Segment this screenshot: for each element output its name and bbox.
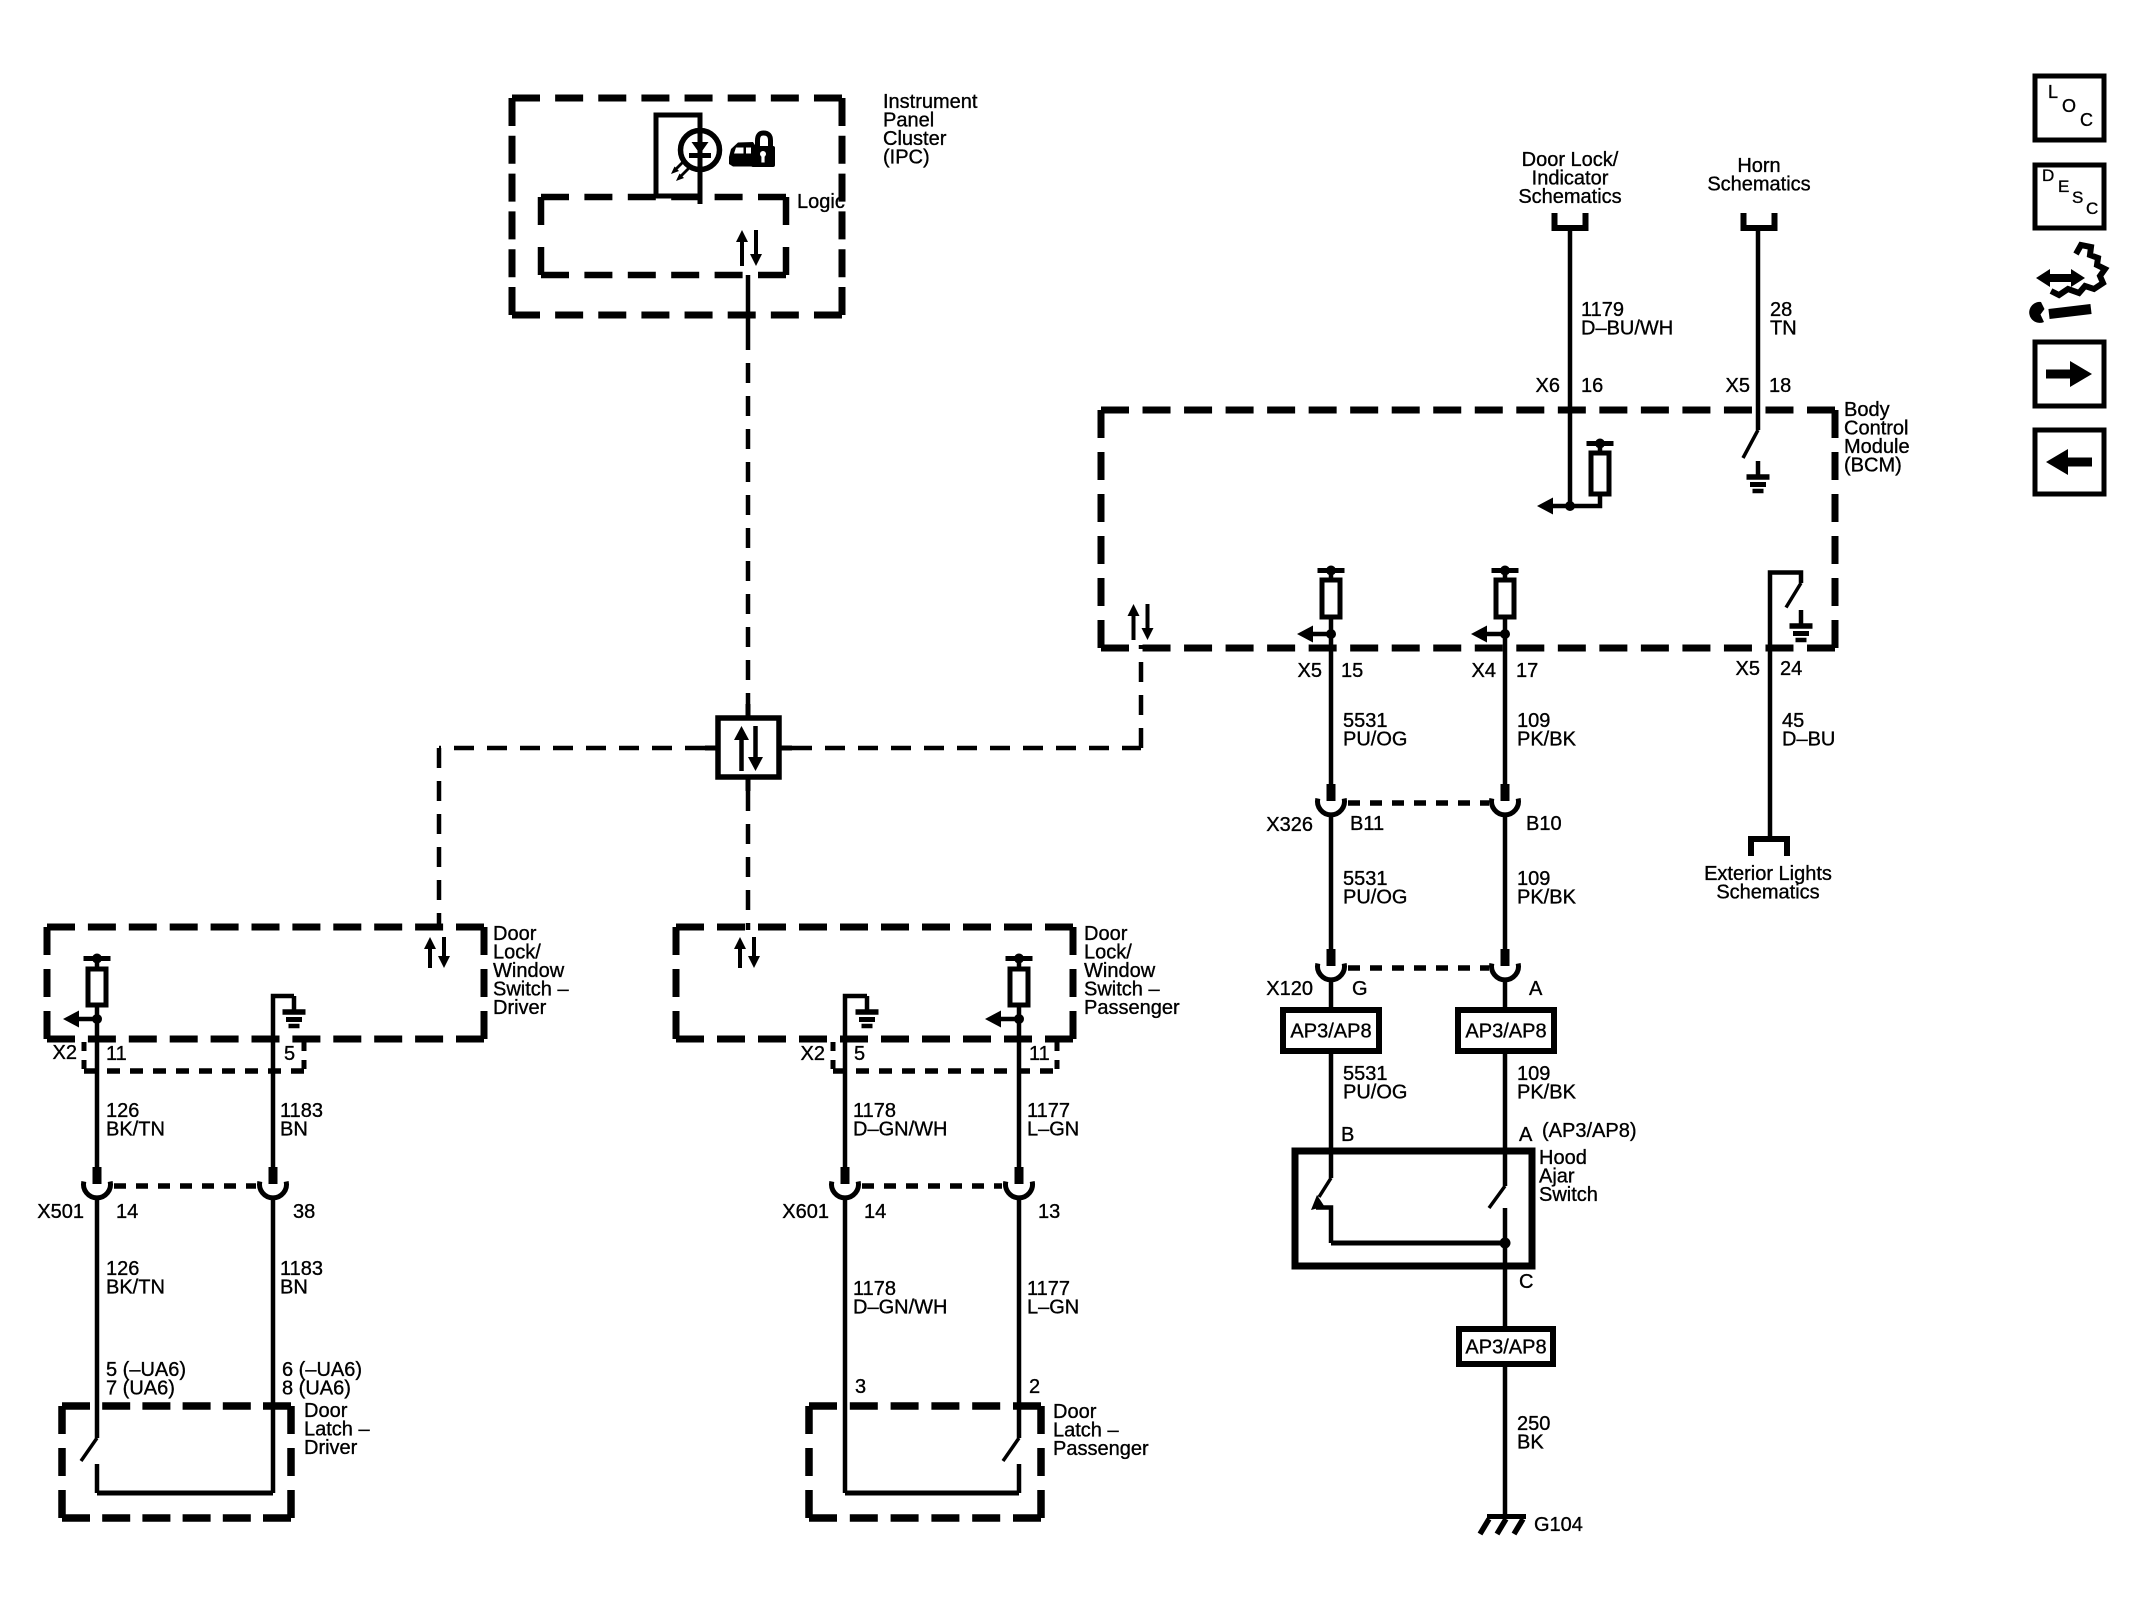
svg-text:2: 2	[1029, 1376, 1040, 1398]
svg-text:G: G	[1352, 978, 1368, 1000]
harness AP3/AP8 box left	[1283, 1010, 1379, 1051]
svg-text:A: A	[1519, 1124, 1533, 1146]
Instrument Panel Cluster (IPC) dashed box	[512, 98, 842, 315]
svg-text:Passenger: Passenger	[1053, 1438, 1149, 1460]
driver latch pin labels	[106, 1359, 362, 1400]
back navigation icon	[2035, 430, 2104, 494]
serial data dashed wire: splice to driver switch	[439, 748, 705, 930]
svg-text:AP3/AP8: AP3/AP8	[1465, 1337, 1546, 1359]
wire 45 label	[1782, 710, 1835, 751]
svg-text:BK: BK	[1517, 1432, 1544, 1454]
svg-text:PK/BK: PK/BK	[1517, 1082, 1577, 1104]
BCM input arrow + junction for 1179	[1537, 498, 1575, 515]
Door Latch - Passenger dashed box	[809, 1406, 1041, 1518]
svg-text:(AP3/AP8): (AP3/AP8)	[1542, 1120, 1636, 1142]
pin X5 15 labels	[1298, 660, 1364, 682]
serial data dashed wire: splice to BCM	[792, 645, 1141, 748]
svg-text:B: B	[1341, 1124, 1354, 1146]
svg-text:X5: X5	[1736, 658, 1760, 680]
svg-text:O: O	[2062, 96, 2076, 116]
repair instructions icon (arrows + wrench)	[2029, 245, 2105, 323]
hood switch blade A	[1489, 1186, 1505, 1208]
off-page connector: Horn Schematics	[1744, 213, 1775, 228]
svg-text:TN: TN	[1770, 318, 1797, 340]
svg-text:Switch: Switch	[1539, 1184, 1598, 1206]
wire 109 PK/BK (X326 to X120)	[1503, 813, 1508, 949]
svg-text:D–GN/WH: D–GN/WH	[853, 1119, 947, 1141]
passenger switch pull-up resistor	[985, 954, 1033, 1028]
pin X6 16 labels	[1536, 375, 1604, 397]
connector X2 dashed marks (driver)	[84, 1042, 304, 1072]
svg-text:X6: X6	[1536, 375, 1560, 397]
in-line connector X120 pin A	[1492, 949, 1519, 980]
wire 1179 label	[1581, 299, 1673, 340]
Door Lock/Window Switch - Passenger dashed box	[676, 927, 1073, 1039]
svg-text:(BCM): (BCM)	[1844, 455, 1902, 477]
svg-text:BN: BN	[280, 1277, 308, 1299]
svg-text:3: 3	[855, 1376, 866, 1398]
BCM serial data up/down arrows	[1128, 604, 1154, 640]
ground G104	[1480, 1517, 1526, 1535]
X326 connector dotted tie line	[1348, 800, 1489, 806]
svg-text:C: C	[2086, 199, 2098, 218]
svg-text:A: A	[1529, 978, 1543, 1000]
svg-text:BK/TN: BK/TN	[106, 1277, 165, 1299]
connector X2 dashed marks (passenger)	[833, 1042, 1057, 1072]
wire 109 label	[1517, 710, 1577, 751]
Logic label	[797, 191, 845, 213]
svg-text:D: D	[2042, 166, 2054, 185]
wire 109 PK/BK (BCM to X326)	[1503, 634, 1508, 784]
BCM pull-up resistor on 1179	[1570, 439, 1614, 507]
passenger switch ground	[845, 996, 879, 1075]
pin X4 17 labels	[1472, 660, 1539, 682]
wire 126 label lower	[106, 1258, 165, 1299]
svg-text:Schematics: Schematics	[1716, 882, 1819, 904]
Door Latch Driver label	[304, 1400, 370, 1459]
hood switch pin letters B / A / (AP3/AP8)	[1341, 1120, 1636, 1146]
Body Control Module (BCM) dashed box	[1101, 410, 1835, 648]
indicator LED branch rectangle	[656, 115, 700, 196]
wire X120-G to harness AP3/AP8	[1329, 978, 1334, 1010]
svg-text:PU/OG: PU/OG	[1343, 887, 1407, 909]
wire 5531 label 3	[1343, 1063, 1407, 1104]
wire 126 label upper	[106, 1100, 165, 1141]
off-page connector: Door Lock/Indicator Schematics	[1555, 213, 1586, 228]
svg-text:17: 17	[1516, 660, 1538, 682]
wire 109 label 2	[1517, 868, 1577, 909]
driver latch switch blade	[81, 1438, 97, 1461]
X501 dotted tie line	[114, 1183, 256, 1189]
security (car with lock) indicator icon	[729, 133, 775, 167]
svg-text:14: 14	[864, 1201, 886, 1223]
svg-text:X326: X326	[1266, 814, 1313, 836]
in-line connector X501 pin 38	[260, 1167, 287, 1198]
svg-text:X4: X4	[1472, 660, 1496, 682]
hood switch blade B with arrow	[1311, 1178, 1331, 1210]
harness AP3/AP8 box right	[1458, 1010, 1554, 1051]
Driver switch label	[493, 923, 569, 1019]
wire from passenger resistor to X2-11	[1017, 1019, 1022, 1075]
svg-text:Logic: Logic	[797, 191, 845, 213]
wire 1177 L-GN lower	[1017, 1196, 1022, 1438]
wire 1183 BN upper	[271, 1039, 276, 1167]
pin C label	[1519, 1271, 1533, 1293]
svg-text:PK/BK: PK/BK	[1517, 729, 1577, 751]
wire 5531 PU/OG (X326 to X120)	[1329, 813, 1334, 949]
hood switch pole B wire	[1329, 1151, 1334, 1178]
in-line connector X120 pin G	[1318, 949, 1345, 980]
wire 28 TN	[1756, 228, 1761, 430]
in-line connector X326 pin B10	[1492, 784, 1519, 815]
wire: LED to logic	[698, 196, 703, 204]
DESC navigation icon	[2035, 165, 2104, 228]
Door Lock/Window Switch - Driver dashed box	[47, 927, 484, 1039]
wire 126 BK/TN lower	[95, 1196, 100, 1438]
driver switch serial data arrows	[424, 937, 450, 968]
Hood Ajar Switch box	[1295, 1151, 1532, 1266]
svg-text:X5: X5	[1298, 660, 1322, 682]
svg-text:5: 5	[284, 1043, 295, 1065]
svg-text:18: 18	[1769, 375, 1791, 397]
wire 5531 PU/OG (to hood switch B)	[1329, 1051, 1334, 1150]
logic serial-data up/down arrows	[736, 230, 762, 266]
harness AP3/AP8 box bottom	[1459, 1329, 1553, 1364]
svg-text:Passenger: Passenger	[1084, 997, 1180, 1019]
svg-text:L–GN: L–GN	[1027, 1119, 1079, 1141]
driver switch pull-up resistor	[63, 954, 111, 1028]
IPC label	[883, 91, 978, 169]
wire 1183 label upper	[280, 1100, 323, 1141]
wire 5531 label 2	[1343, 868, 1407, 909]
passenger switch serial data arrows	[734, 937, 760, 968]
svg-text:X2: X2	[801, 1043, 825, 1065]
driver switch ground	[273, 996, 306, 1039]
forward navigation icon	[2035, 342, 2104, 406]
svg-text:X5: X5	[1726, 375, 1750, 397]
wire 109 label 3	[1517, 1063, 1577, 1104]
svg-text:Driver: Driver	[304, 1437, 358, 1459]
svg-text:(IPC): (IPC)	[883, 147, 930, 169]
wire 5531 label	[1343, 710, 1407, 751]
wire 5531 PU/OG (BCM to X326)	[1329, 634, 1334, 784]
svg-text:7 (UA6): 7 (UA6)	[106, 1378, 175, 1400]
Door Lock/Indicator Schematics label	[1518, 149, 1621, 208]
pin X5 18 labels	[1726, 375, 1792, 397]
wire from driver resistor to X2-11	[95, 1019, 100, 1075]
BCM pull-up resistor on 109	[1471, 566, 1519, 643]
LED D1 diode symbol	[689, 142, 711, 156]
wire 45 D-BU	[1768, 648, 1773, 839]
in-line connector X501 pin 14	[84, 1167, 111, 1198]
svg-text:X601: X601	[782, 1201, 829, 1223]
hood switch A fixed contact	[1503, 1208, 1508, 1243]
serial data communication node (box with up/down arrows)	[705, 704, 792, 791]
in-line connector X601 pin 13	[1006, 1167, 1033, 1198]
serial data dashed wire: splice to passenger switch	[746, 791, 751, 930]
svg-text:11: 11	[1029, 1043, 1050, 1065]
svg-text:13: 13	[1038, 1201, 1060, 1223]
wire 1177 label upper	[1027, 1100, 1079, 1141]
Exterior Lights Schematics label	[1704, 863, 1832, 904]
svg-text:X501: X501	[37, 1201, 84, 1223]
BCM label	[1844, 399, 1910, 477]
svg-text:B10: B10	[1526, 813, 1562, 835]
wire 1183 label lower	[280, 1258, 323, 1299]
svg-text:8 (UA6): 8 (UA6)	[282, 1378, 351, 1400]
Hood Ajar Switch label	[1539, 1147, 1598, 1206]
serial data dashed wire: IPC down to splice box	[746, 330, 751, 711]
svg-text:C: C	[2080, 110, 2093, 130]
svg-text:Schematics: Schematics	[1518, 186, 1621, 208]
wire: logic to serial data bus (solid stub)	[746, 275, 751, 330]
wire 1183 BN lower	[271, 1196, 276, 1493]
BCM horn switch ground	[1747, 461, 1770, 491]
X601 labels	[782, 1201, 1060, 1223]
Horn Schematics label	[1707, 155, 1810, 196]
wire 1178 label lower	[853, 1278, 947, 1319]
svg-text:S: S	[2072, 188, 2083, 207]
hood switch pole A wire	[1503, 1151, 1508, 1186]
svg-text:Driver: Driver	[493, 997, 547, 1019]
BCM hood-ajar sense switch to ground	[1770, 573, 1813, 649]
svg-text:Schematics: Schematics	[1707, 174, 1810, 196]
X326 labels	[1266, 813, 1561, 836]
G104 label	[1534, 1514, 1583, 1536]
svg-text:D–BU: D–BU	[1782, 729, 1835, 751]
LOC navigation icon	[2035, 76, 2104, 140]
X120 connector dotted tie line	[1348, 965, 1489, 971]
svg-text:38: 38	[293, 1201, 315, 1223]
svg-text:PU/OG: PU/OG	[1343, 729, 1407, 751]
passenger latch fixed contact + rail	[845, 1464, 1019, 1493]
X120 labels	[1266, 978, 1543, 1000]
svg-text:PK/BK: PK/BK	[1517, 887, 1577, 909]
wire 1178 D-GN/WH lower	[843, 1196, 848, 1493]
svg-text:E: E	[2058, 177, 2069, 196]
wire 250 label	[1517, 1413, 1550, 1454]
BCM horn switch blade	[1743, 430, 1758, 458]
svg-text:BN: BN	[280, 1119, 308, 1141]
Door Latch - Driver dashed box	[62, 1406, 291, 1518]
svg-text:B11: B11	[1350, 813, 1384, 835]
LED D1 circle	[681, 130, 720, 170]
wire X120-A to harness AP3/AP8	[1503, 978, 1508, 1010]
svg-text:L: L	[2048, 82, 2058, 102]
Passenger switch label	[1084, 923, 1180, 1019]
hood switch B fixed contact	[1316, 1208, 1331, 1244]
X501 labels	[37, 1201, 315, 1223]
wire 1177 L-GN upper	[1017, 1075, 1022, 1167]
connector X2 labels (driver)	[53, 1042, 296, 1065]
wire hood switch C out	[1503, 1243, 1508, 1329]
wire 126 BK/TN upper	[95, 1075, 100, 1167]
svg-text:15: 15	[1341, 660, 1363, 682]
wire 28 label	[1770, 299, 1797, 340]
wire 1177 label lower	[1027, 1278, 1079, 1319]
driver latch fixed contact + rail	[97, 1464, 273, 1493]
svg-text:AP3/AP8: AP3/AP8	[1290, 1021, 1371, 1043]
svg-text:BK/TN: BK/TN	[106, 1119, 165, 1141]
svg-text:11: 11	[106, 1043, 127, 1065]
svg-text:AP3/AP8: AP3/AP8	[1465, 1021, 1546, 1043]
wire 1178 label upper	[853, 1100, 947, 1141]
svg-text:D–BU/WH: D–BU/WH	[1581, 318, 1673, 340]
X601 dotted tie line	[862, 1183, 1002, 1189]
hood switch common rail	[1331, 1238, 1511, 1249]
Door Latch Passenger label	[1053, 1401, 1149, 1460]
wire 250 BK	[1503, 1364, 1508, 1516]
in-line connector X326 pin B11	[1318, 784, 1345, 815]
connector X2 labels (passenger)	[801, 1043, 1050, 1065]
in-line connector X601 pin 14	[832, 1167, 859, 1198]
BCM pull-up resistor on 5531	[1297, 566, 1345, 643]
off-page connector: Exterior Lights Schematics	[1751, 839, 1787, 856]
wire 1179 D-BU/WH	[1568, 228, 1573, 506]
passenger latch switch blade	[1003, 1438, 1019, 1461]
LED light emission arrows	[671, 161, 689, 181]
svg-text:L–GN: L–GN	[1027, 1297, 1079, 1319]
wire 1178 D-GN/WH upper	[843, 1075, 848, 1167]
svg-text:24: 24	[1780, 658, 1802, 680]
svg-text:5: 5	[854, 1043, 865, 1065]
Logic dashed box	[541, 197, 786, 275]
svg-text:D–GN/WH: D–GN/WH	[853, 1297, 947, 1319]
svg-text:X120: X120	[1266, 978, 1313, 1000]
pin X5 24 labels	[1736, 658, 1803, 680]
svg-text:G104: G104	[1534, 1514, 1583, 1536]
svg-text:C: C	[1519, 1271, 1533, 1293]
svg-text:14: 14	[116, 1201, 138, 1223]
svg-text:PU/OG: PU/OG	[1343, 1082, 1407, 1104]
svg-text:X2: X2	[53, 1042, 77, 1064]
passenger latch pin labels	[855, 1376, 1040, 1398]
svg-text:16: 16	[1581, 375, 1603, 397]
wire 109 PK/BK (to hood switch A)	[1503, 1051, 1508, 1150]
